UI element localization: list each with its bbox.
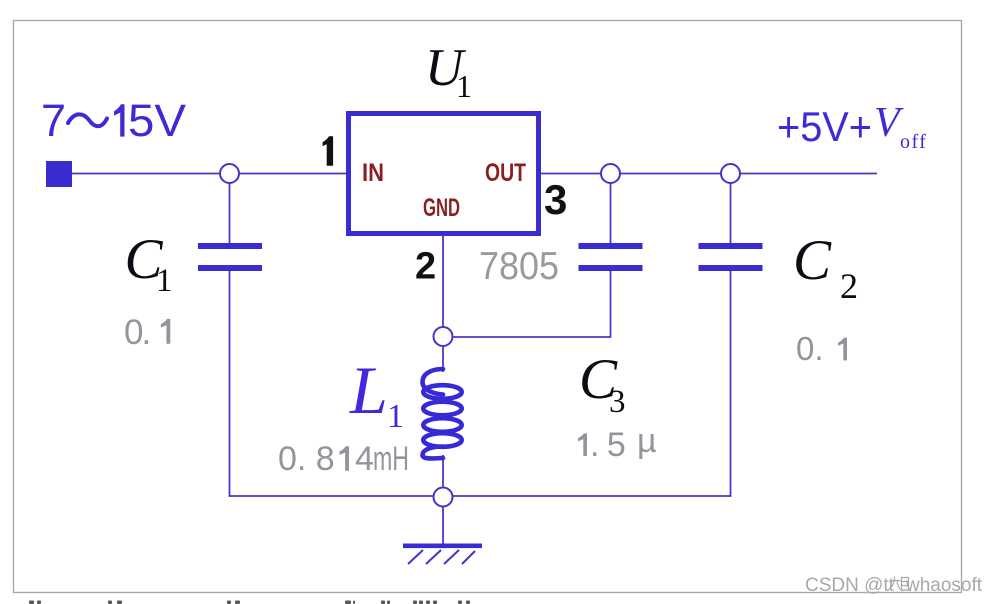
svg-text:IN: IN [362,159,384,187]
svg-text:3: 3 [544,176,567,223]
svg-text:1: 1 [456,68,472,104]
C2 value 0.1 [796,330,847,367]
wire: input terminal to U1 IN pin [72,173,346,175]
svg-text:GND: GND [423,194,460,222]
C3 reference designator [579,348,626,420]
capacitor C3 [579,243,643,271]
cropped text row at bottom edge [29,601,470,604]
wire: C3 top stub [610,174,612,245]
wire: OUT pin to +5V output [541,173,877,175]
svg-text:off: off [900,131,927,153]
svg-text:3: 3 [609,384,626,420]
C3 value 1.5u [578,422,657,464]
L1 value 0.814mH [278,440,409,478]
svg-text:2: 2 [840,266,858,306]
node: input / C1 junction [220,164,239,183]
svg-text:mH: mH [373,440,409,478]
capacitor C1 [198,243,262,271]
svg-text:2: 2 [415,246,436,288]
svg-text:5V: 5V [128,95,186,146]
C1 value 0.1 [124,313,170,352]
node: OUT / C2 junction [721,164,740,183]
inductor L1 [423,369,462,458]
wire: L1 bottom to ground rail node [442,455,444,490]
capacitor C2 [699,243,763,271]
svg-text:7: 7 [41,95,66,146]
node: GND pin / C3 / L1 junction [434,327,453,346]
wire: C2 bottom to ground rail [443,270,731,496]
svg-text:0.: 0. [796,330,824,367]
svg-text:µ: µ [637,422,657,460]
node: OUT / C3 junction [601,164,620,183]
net label: +5V+Voff output [777,100,927,153]
net label: 7~15V input [41,95,186,146]
U1 reference designator [425,39,472,104]
wire: C1 bottom to ground rail [230,270,444,496]
C2 reference designator [793,229,858,306]
L1 reference designator [349,352,404,435]
wire: GND node to L1 top [442,343,444,372]
svg-text:7805: 7805 [479,245,559,288]
regulator U1 body [349,114,539,234]
svg-text:+5V+: +5V+ [777,103,872,150]
svg-text:1: 1 [387,398,404,435]
watermark CSDN [805,575,983,596]
wire: ground rail node to ground symbol [442,504,444,544]
svg-text:4: 4 [355,440,374,478]
node: ground rail junction [434,488,453,507]
svg-text:L: L [349,352,388,428]
svg-text:CSDN @tt: CSDN @tt [805,575,895,596]
svg-text:whaosoft: whaosoft [905,575,983,596]
pin 1 number [323,136,334,165]
svg-text:. 5: . 5 [590,426,625,464]
svg-text:0. 8: 0. 8 [278,440,335,478]
ground [403,544,482,565]
wire: C3 bottom to GND node [443,270,611,337]
svg-text:C: C [793,229,832,292]
svg-text:0.: 0. [124,313,149,352]
C1 reference designator [125,228,173,299]
wire: C1 top stub [229,174,231,245]
wire: C2 top stub [730,174,732,245]
svg-text:1: 1 [156,263,173,299]
wire: U1 GND pin to node [442,235,444,330]
input terminal [46,161,72,187]
svg-text:OUT: OUT [485,159,526,187]
